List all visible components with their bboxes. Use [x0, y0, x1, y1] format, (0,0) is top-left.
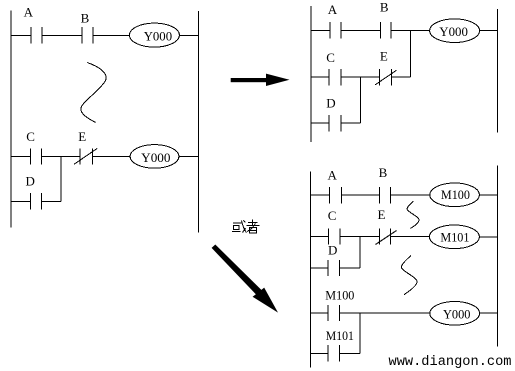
svg-text:C: C: [326, 50, 335, 65]
text 或者 (or): [232, 220, 260, 234]
wire: coil M101 to right rail: [479, 236, 497, 238]
squiggle: omitted rungs mark: [81, 63, 106, 123]
top-right ladder: left power rail: [310, 6, 312, 142]
contact C (NO): [329, 69, 341, 85]
wire: contact E to junction vertical: [391, 76, 410, 78]
coil Y000 (rung 2 left): [130, 145, 179, 169]
svg-text:E: E: [378, 207, 386, 222]
wire: coil M100 to right rail: [479, 194, 497, 196]
contact C (NO): [329, 228, 340, 244]
wire: contact C to contact E: [341, 76, 380, 78]
wire: contact B to coil Y000: [391, 29, 430, 31]
wire: contact M100 to coil Y000: [339, 312, 430, 314]
wire: coil Y000 to right rail: [179, 34, 198, 36]
wire: left rail to contact D: [311, 267, 329, 269]
wire: contact E to coil M101: [390, 236, 429, 238]
wire: contact D to branch junction: [339, 267, 360, 269]
wire: left rail to contact A: [311, 194, 330, 196]
wire: contact A to contact B: [42, 34, 82, 36]
svg-text:A: A: [24, 4, 34, 19]
svg-text:Y000: Y000: [141, 150, 170, 165]
svg-text:M101: M101: [440, 230, 469, 245]
wire: contact D to branch junction: [341, 122, 361, 124]
contact A (NO): [330, 187, 342, 203]
arrow: horizontal transform arrow: [231, 74, 290, 86]
wire: left rail to contact D: [11, 200, 30, 202]
wire: contact B to coil M100: [390, 194, 430, 196]
svg-text:A: A: [328, 2, 338, 17]
contact E (NC): [74, 148, 97, 164]
svg-text:C: C: [26, 129, 35, 144]
contact M100 (NO): [328, 305, 339, 321]
contact A (NO): [330, 22, 341, 38]
svg-text:A: A: [328, 168, 338, 183]
wire: left rail to contact M100: [311, 312, 329, 314]
wire: junction vertical rung1 to E branch: [410, 30, 412, 77]
wire: contact D to branch junction: [42, 200, 62, 202]
contact B (NO): [379, 187, 390, 203]
left ladder: right power rail: [197, 11, 199, 232]
svg-text:C: C: [328, 208, 337, 223]
wire: left rail to contact C: [311, 236, 329, 238]
arrow: diagonal transform arrow: [212, 245, 278, 313]
svg-text:E: E: [78, 129, 86, 144]
contact B (NO): [82, 27, 93, 43]
svg-text:E: E: [380, 48, 388, 63]
contact D (NO): [328, 260, 339, 276]
bottom-right ladder: right power rail: [497, 166, 499, 347]
wire: contact A to contact B: [341, 194, 379, 196]
svg-text:B: B: [379, 165, 388, 180]
wire: contact C to contact E: [340, 236, 379, 238]
svg-text:M100: M100: [441, 187, 470, 202]
coil M101: [429, 225, 479, 249]
svg-text:D: D: [328, 242, 337, 257]
wire: left rail to contact C: [311, 76, 329, 78]
svg-text:www.diangon.com: www.diangon.com: [389, 355, 512, 370]
wire: branch junction vertical C-D: [360, 77, 362, 123]
wire: contact M101 to branch junction: [339, 352, 360, 354]
wire: left rail to contact D: [311, 122, 329, 124]
wire: branch junction vertical C-D: [60, 157, 62, 202]
contact E (NC): [375, 69, 396, 85]
svg-text:Y000: Y000: [443, 306, 471, 321]
svg-text:D: D: [326, 96, 335, 111]
coil Y000 (top right): [430, 19, 480, 43]
contact B (NO): [380, 22, 391, 38]
squiggle: omitted rungs mark 2: [401, 256, 417, 295]
coil M100: [430, 183, 480, 207]
bottom-right ladder: left power rail: [310, 171, 312, 367]
wire: contact B to coil Y000: [93, 34, 129, 36]
coil Y000 (bottom right): [430, 302, 480, 326]
contact E (NC): [376, 228, 397, 244]
svg-text:M101: M101: [326, 328, 354, 343]
wire: branch junction vertical C-D: [359, 237, 361, 269]
wire: coil Y000 to right rail: [480, 29, 498, 31]
wire: contact C to contact E: [42, 156, 80, 158]
contact C (NO): [30, 148, 41, 164]
squiggle: omitted rungs mark 1: [407, 201, 419, 228]
svg-text:B: B: [81, 10, 90, 25]
contact D (NO): [30, 193, 41, 209]
contact D (NO): [329, 115, 341, 131]
svg-text:Y000: Y000: [144, 28, 172, 43]
wire: coil Y000 to right rail: [179, 156, 199, 158]
contact M101 (NO): [328, 345, 339, 361]
svg-text:M100: M100: [325, 288, 354, 303]
wire: branch junction vertical M100-M101: [359, 313, 361, 353]
wire: left rail to contact A: [11, 34, 31, 36]
svg-text:Y000: Y000: [439, 24, 468, 39]
left ladder: left power rail: [10, 11, 12, 228]
svg-text:D: D: [26, 174, 35, 189]
wire: left rail to contact M101: [311, 352, 329, 354]
wire: contact E to coil Y000: [93, 156, 130, 158]
wire: contact A to contact B: [341, 29, 381, 31]
wire: left rail to contact A: [311, 29, 330, 31]
wire: coil Y000 to right rail: [480, 312, 498, 314]
top-right ladder: right power rail: [496, 9, 498, 132]
svg-text:B: B: [380, 0, 389, 15]
coil Y000 (rung 1 left): [129, 23, 179, 47]
contact A (NO): [31, 27, 42, 43]
wire: left rail to contact C: [11, 156, 30, 158]
